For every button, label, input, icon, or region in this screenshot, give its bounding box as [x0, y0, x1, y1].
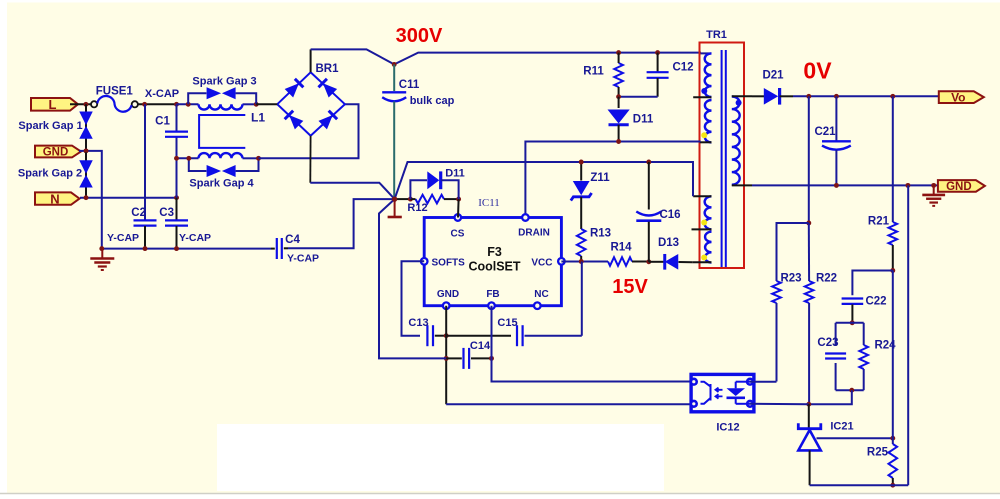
TR1 aux bottom pin [692, 261, 711, 263]
svg-text:CS: CS [451, 229, 465, 240]
TR1 aux yellow dot lower [701, 255, 707, 261]
junction divider top node [850, 320, 855, 325]
wire snubber top rail [616, 50, 621, 55]
capacitor C16 [648, 162, 650, 210]
wire secondary gnd rail [752, 184, 938, 186]
parallel box C23 R24 [836, 322, 864, 324]
capacitor C21 [835, 96, 837, 141]
svg-text:F3: F3 [487, 245, 502, 259]
TR1 aux yellow dot upper [701, 220, 707, 226]
svg-text:NC: NC [534, 289, 548, 300]
svg-text:Y-CAP: Y-CAP [107, 232, 139, 244]
diode D13 [649, 261, 664, 263]
wire snubber mid rail [619, 96, 658, 98]
TR1 primary polarity dot [701, 88, 707, 94]
svg-text:X-CAP: X-CAP [145, 88, 179, 100]
wire 0V rail [793, 95, 939, 97]
wire ground node to R12 [395, 198, 411, 200]
wire divider bottom to fb node [809, 390, 852, 404]
svg-text:R25: R25 [867, 447, 889, 459]
spark gap 4 [207, 165, 222, 177]
spark gap 3 [207, 87, 222, 99]
TR1 red box [700, 43, 745, 269]
capacitor C13 [426, 325, 428, 346]
inductor L1 bottom winding [199, 153, 243, 158]
svg-text:IC11: IC11 [478, 197, 500, 209]
wire right riser to gnd rail [907, 185, 909, 485]
svg-text:Spark Gap 3: Spark Gap 3 [192, 75, 256, 87]
junction primary ground node top [392, 197, 397, 202]
connector L [31, 98, 78, 111]
svg-text:TR1: TR1 [706, 29, 727, 41]
diode D11 at CS [410, 180, 427, 199]
wire primary ground to C14 [379, 199, 446, 358]
wire FB pin down to opto [492, 306, 694, 382]
svg-text:BR1: BR1 [315, 63, 339, 75]
wire bridge top to 300V rail [310, 49, 312, 72]
svg-text:300V: 300V [396, 25, 443, 47]
pin CS [455, 214, 462, 221]
connector N [35, 192, 80, 204]
pin GND [443, 302, 450, 309]
primary ground node [392, 197, 397, 202]
wire drain line [525, 142, 699, 218]
resistor R25 [889, 444, 898, 478]
diode D11 snubber [618, 97, 620, 108]
wire GND to earth drop [79, 151, 102, 249]
wire opto out bottom [750, 403, 809, 405]
svg-text:L1: L1 [251, 111, 265, 125]
TR1 primary lower yellow dot [701, 132, 707, 138]
svg-text:C21: C21 [814, 126, 836, 138]
spark gap 1 [85, 104, 87, 152]
junction C22 R21 node [890, 268, 895, 273]
pin SOFTS [421, 258, 428, 265]
svg-text:C11: C11 [399, 79, 420, 91]
pin FB [488, 302, 495, 309]
TR1 aux top pin [693, 195, 711, 197]
svg-text:Vo: Vo [951, 90, 965, 104]
spark gap 2 [85, 152, 87, 197]
capacitor C15 [446, 335, 511, 337]
wire to R23 [777, 223, 809, 281]
wire vcc line [561, 261, 608, 263]
inductor L1 top winding [199, 104, 243, 109]
wire right chain [892, 271, 894, 445]
resistor R23 [772, 281, 781, 303]
TR1 secondary winding [732, 97, 740, 185]
optocoupler IC12 [691, 374, 754, 411]
connector GND output [938, 180, 985, 192]
svg-text:L: L [49, 97, 57, 112]
svg-text:VCC: VCC [531, 257, 552, 268]
capacitor C3 [176, 198, 178, 220]
svg-text:C12: C12 [672, 62, 693, 74]
TR1 aux mid pin [692, 228, 712, 230]
svg-text:C16: C16 [659, 209, 680, 221]
svg-text:bulk cap: bulk cap [410, 95, 455, 107]
svg-text:R23: R23 [780, 272, 801, 284]
wire R14 to C16 node [632, 261, 649, 263]
ground symbol primary [394, 199, 396, 216]
zener Z11 [580, 162, 582, 181]
svg-text:C3: C3 [159, 207, 174, 219]
wire GND pin down [445, 306, 447, 405]
wire IC21 ref [817, 437, 893, 439]
wire aux line upper [408, 161, 693, 163]
wire Vo feedback drop [808, 96, 810, 223]
resistor R11 [614, 63, 623, 87]
wire N to L1 bottom [176, 137, 178, 198]
wire L line to bridge left [256, 103, 277, 105]
wire L to fuse [70, 103, 91, 105]
capacitor C11 bulk [393, 64, 395, 91]
fuse FUSE1 [91, 101, 97, 107]
wire bridge bottom to ground node [309, 136, 311, 183]
svg-text:Y-CAP: Y-CAP [287, 253, 319, 265]
svg-text:R11: R11 [583, 66, 604, 78]
svg-text:C22: C22 [865, 296, 886, 308]
resistor R13 [577, 229, 586, 256]
resistor R24 [859, 345, 868, 369]
svg-text:FB: FB [486, 289, 499, 300]
pin NC [534, 302, 541, 309]
svg-text:C4: C4 [285, 234, 300, 246]
svg-text:C14: C14 [470, 340, 491, 352]
svg-text:N: N [50, 191, 59, 206]
earth rail [102, 248, 271, 250]
capacitor C2 [144, 104, 146, 219]
svg-text:Z11: Z11 [590, 172, 610, 184]
svg-text:SOFTS: SOFTS [432, 257, 466, 268]
svg-text:Spark Gap 4: Spark Gap 4 [189, 177, 254, 189]
wire fuse to X-CAP node [138, 103, 177, 105]
spark gap 4 loop [189, 158, 207, 171]
pin DRAIN [522, 214, 529, 221]
TR1 aux winding upper [705, 196, 712, 229]
svg-text:R21: R21 [868, 216, 890, 228]
svg-text:R12: R12 [407, 202, 427, 214]
wire GND line to opto [446, 403, 694, 405]
svg-text:D13: D13 [658, 237, 679, 249]
bridge rectifier BR1 [277, 72, 345, 135]
TR1 core [721, 50, 723, 267]
capacitor C14 [462, 348, 464, 369]
spark gap 3 loop [188, 93, 206, 104]
wire 300V rail to transformer [394, 53, 711, 65]
svg-text:C2: C2 [131, 207, 146, 219]
svg-text:Y-CAP: Y-CAP [179, 232, 211, 244]
TR1 secondary bottom pin [732, 184, 752, 186]
TR1 secondary polarity dot [736, 100, 742, 106]
wire L1 bottom to bridge [259, 104, 359, 158]
wire aux vcc supply line [395, 162, 693, 199]
resistor R12 [416, 195, 445, 204]
ground symbol left [101, 250, 103, 258]
diode D21 [752, 95, 764, 97]
svg-text:0V: 0V [803, 58, 832, 84]
svg-text:C15: C15 [497, 317, 517, 329]
svg-text:C1: C1 [155, 116, 170, 128]
resistor R22 [808, 223, 810, 281]
L1 coupling box [199, 115, 245, 148]
shunt regulator IC21 [808, 404, 810, 427]
svg-text:D11: D11 [633, 114, 654, 126]
svg-text:Spark Gap 2: Spark Gap 2 [18, 168, 82, 180]
svg-text:15V: 15V [612, 276, 648, 298]
white notes box [217, 424, 664, 491]
op-amp U1 IC11 CoolSET body [424, 218, 561, 306]
svg-text:DRAIN: DRAIN [518, 228, 550, 239]
wire opto out top to R23 [750, 381, 777, 383]
capacitor C1 [176, 104, 178, 131]
svg-text:IC21: IC21 [830, 421, 853, 433]
svg-text:IC12: IC12 [716, 422, 739, 434]
svg-text:R14: R14 [610, 242, 632, 254]
svg-text:C13: C13 [408, 317, 428, 329]
connector Vo [939, 91, 984, 103]
svg-text:D21: D21 [762, 70, 784, 82]
wire bottom rail [810, 484, 909, 486]
wire C15 to VCC [581, 262, 583, 336]
svg-text:FUSE1: FUSE1 [96, 85, 134, 97]
pin VCC [558, 258, 565, 265]
svg-text:GND: GND [437, 289, 459, 300]
capacitor C22 [852, 271, 892, 296]
TR1 primary bottom pin [700, 141, 712, 143]
wire N line [80, 197, 177, 199]
svg-text:GND: GND [946, 181, 972, 193]
capacitor C4 [276, 238, 278, 259]
resistor R14 [608, 257, 632, 266]
TR1 primary mid pin [693, 96, 711, 98]
resistor R21 [892, 96, 894, 222]
TR1 secondary top pin [732, 95, 752, 97]
node L line to L1 [177, 103, 199, 105]
svg-text:R13: R13 [590, 228, 611, 240]
wire CS pin [457, 199, 460, 217]
wire C4 to primary ground [288, 199, 395, 248]
svg-text:CoolSET: CoolSET [468, 260, 520, 274]
wire SOFTS to C13 [402, 261, 425, 335]
capacitor C12 [657, 53, 659, 72]
capacitor C23 [825, 352, 846, 354]
TR1 aux winding lower [705, 232, 711, 263]
svg-text:C23: C23 [817, 337, 838, 349]
svg-text:D11: D11 [445, 168, 465, 180]
svg-text:R22: R22 [816, 272, 837, 284]
TR1 primary winding lower [705, 100, 712, 142]
TR1 primary winding upper [705, 53, 712, 97]
connector GND input [35, 146, 81, 158]
svg-text:GND: GND [43, 147, 69, 159]
ground symbol output [933, 186, 935, 194]
svg-text:Spark Gap 1: Spark Gap 1 [18, 120, 82, 132]
